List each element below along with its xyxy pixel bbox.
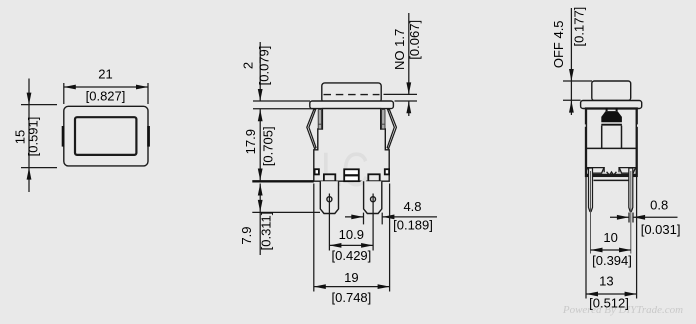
shoulder right [619, 167, 637, 169]
dim 10 [591, 249, 632, 251]
clip anchor right [382, 109, 385, 129]
svg-text:10: 10 [603, 230, 617, 245]
plunger head [601, 111, 622, 122]
svg-text:NO 1.7: NO 1.7 [392, 29, 407, 70]
centerline t2 [372, 194, 374, 251]
stem left [601, 126, 603, 149]
svg-text:[0.311]: [0.311] [259, 212, 274, 251]
clip anchor left [318, 109, 321, 129]
centerline t1 [328, 194, 330, 251]
mount tab right [147, 126, 150, 147]
dim 2 [253, 42, 314, 181]
svg-text:2: 2 [241, 62, 256, 69]
foot right [368, 174, 379, 181]
svg-text:13: 13 [599, 273, 613, 288]
flange [310, 101, 394, 109]
svg-text:[0.079]: [0.079] [257, 46, 272, 86]
foot end right [619, 168, 635, 174]
svg-text:[0.705]: [0.705] [260, 126, 275, 166]
svg-text:[0.591]: [0.591] [26, 117, 41, 157]
svg-text:[0.512]: [0.512] [589, 296, 629, 311]
button cap [322, 83, 381, 103]
svg-text:21: 21 [98, 67, 112, 82]
SIDE VIEW (middle) [310, 83, 394, 181]
dim 15 [21, 79, 57, 193]
center zigzag [607, 172, 617, 175]
pin centerline right [630, 171, 632, 254]
pressed position dashed [324, 94, 380, 96]
svg-text:[0.177]: [0.177] [572, 7, 587, 47]
channel wall left [603, 168, 605, 173]
dim 0.8 [610, 213, 678, 223]
bezel outer [64, 106, 148, 166]
END VIEW (right) [581, 81, 642, 176]
svg-text:[0.067]: [0.067] [407, 20, 422, 60]
latch hole right [385, 169, 389, 174]
svg-text:0.8: 0.8 [650, 198, 668, 213]
body end [586, 109, 637, 176]
thick base ext line [252, 180, 313, 182]
dim 17.9 [258, 169, 263, 181]
foot end left [587, 168, 604, 174]
mount tab left [62, 126, 65, 147]
spring clip right [387, 110, 396, 149]
dim 10.9 [329, 244, 373, 246]
foot left [324, 174, 335, 181]
dim NO 1.7 [384, 13, 418, 116]
terminal 2 hole [371, 197, 376, 202]
button cap end [592, 81, 631, 101]
contact stack [344, 169, 359, 181]
svg-text:[0.189]: [0.189] [393, 218, 433, 233]
pin centerline left [590, 171, 592, 254]
base band [586, 174, 637, 176]
terminal 1 [320, 181, 338, 213]
terminal 2 [364, 181, 382, 213]
wall nick right [637, 124, 638, 126]
plunger collar [601, 124, 622, 126]
svg-text:[0.748]: [0.748] [332, 290, 372, 305]
svg-text:19: 19 [344, 270, 358, 285]
wall nick left [585, 124, 586, 126]
dim 7.9 [252, 184, 320, 256]
pin left [589, 168, 593, 212]
stem right [621, 126, 623, 149]
spring clip left [307, 110, 316, 149]
svg-text:OFF 4.5: OFF 4.5 [551, 20, 566, 68]
svg-text:7.9: 7.9 [239, 227, 254, 245]
svg-text:4.8: 4.8 [403, 199, 421, 214]
svg-text:[0.031]: [0.031] [641, 222, 681, 237]
dim 4.8 [345, 213, 437, 225]
button face inner [75, 117, 136, 155]
seam [586, 147, 637, 149]
flange end [581, 101, 642, 109]
pedestal bottom [594, 179, 630, 181]
terminal 1 hole [327, 197, 332, 202]
latch hole left [315, 169, 319, 174]
svg-text:[0.394]: [0.394] [592, 253, 632, 268]
dim OFF 4.5 [563, 8, 592, 115]
body [314, 109, 389, 182]
plunger pegs [606, 108, 608, 111]
dim 19 [314, 184, 390, 292]
pin right [629, 168, 633, 212]
svg-text:[0.827]: [0.827] [86, 89, 126, 104]
dim 21 [64, 83, 148, 104]
shoulder left [586, 167, 604, 169]
channel wall right [618, 168, 620, 173]
dim 13 [586, 177, 637, 299]
svg-text:10.9: 10.9 [339, 227, 364, 242]
svg-text:17.9: 17.9 [243, 129, 258, 154]
svg-text:[0.429]: [0.429] [332, 248, 372, 263]
